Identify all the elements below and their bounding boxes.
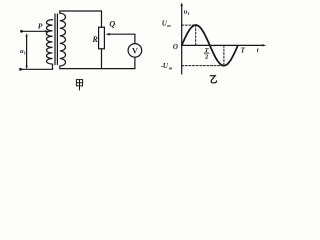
svg-text:t: t (257, 47, 259, 54)
wire resistor bottom lead (101, 49, 103, 69)
svg-text:m: m (167, 23, 171, 28)
transformer core (54, 14, 56, 65)
wire voltmeter bottom lead (134, 57, 136, 68)
svg-text:R: R (92, 35, 99, 44)
caption yi (second figure) (210, 76, 217, 83)
svg-text:m: m (169, 66, 173, 71)
svg-text:O: O (173, 43, 178, 51)
dashed drop at 3T/4 (223, 45, 225, 65)
primary winding (47, 20, 53, 64)
wire bottom rail (secondary) (60, 66, 135, 69)
y-axis u1 (181, 5, 183, 75)
dashed level Um (182, 24, 196, 26)
svg-text:-U: -U (161, 62, 169, 70)
terminal dot (top input) (20, 30, 23, 33)
svg-text:Q: Q (109, 19, 115, 28)
caption jia (first figure) (76, 80, 82, 90)
secondary winding (60, 13, 66, 66)
wire top input to tap P (22, 30, 47, 32)
wire secondary top to resistor (60, 11, 102, 27)
resistor R body (99, 27, 105, 49)
svg-text:2: 2 (205, 54, 208, 61)
dashed level -Um (182, 65, 224, 67)
svg-text:1: 1 (187, 11, 190, 16)
tap arrowhead P onto primary winding (45, 30, 49, 32)
sine curve u1(t) (182, 25, 238, 66)
wire bottom input to primary coil bottom (21, 64, 53, 69)
x-axis t (182, 44, 264, 46)
svg-text:T: T (241, 46, 246, 54)
svg-text:P: P (38, 22, 43, 31)
dashed drop at T/4 (195, 25, 197, 45)
tap arrowhead Q onto resistor (106, 33, 110, 36)
voltmeter V (128, 44, 142, 58)
terminal dot (bottom input) (19, 68, 22, 71)
svg-text:V: V (132, 46, 138, 55)
tap wire Q to voltmeter (109, 34, 135, 43)
voltage arrow u1 (double-headed) (26, 35, 28, 68)
